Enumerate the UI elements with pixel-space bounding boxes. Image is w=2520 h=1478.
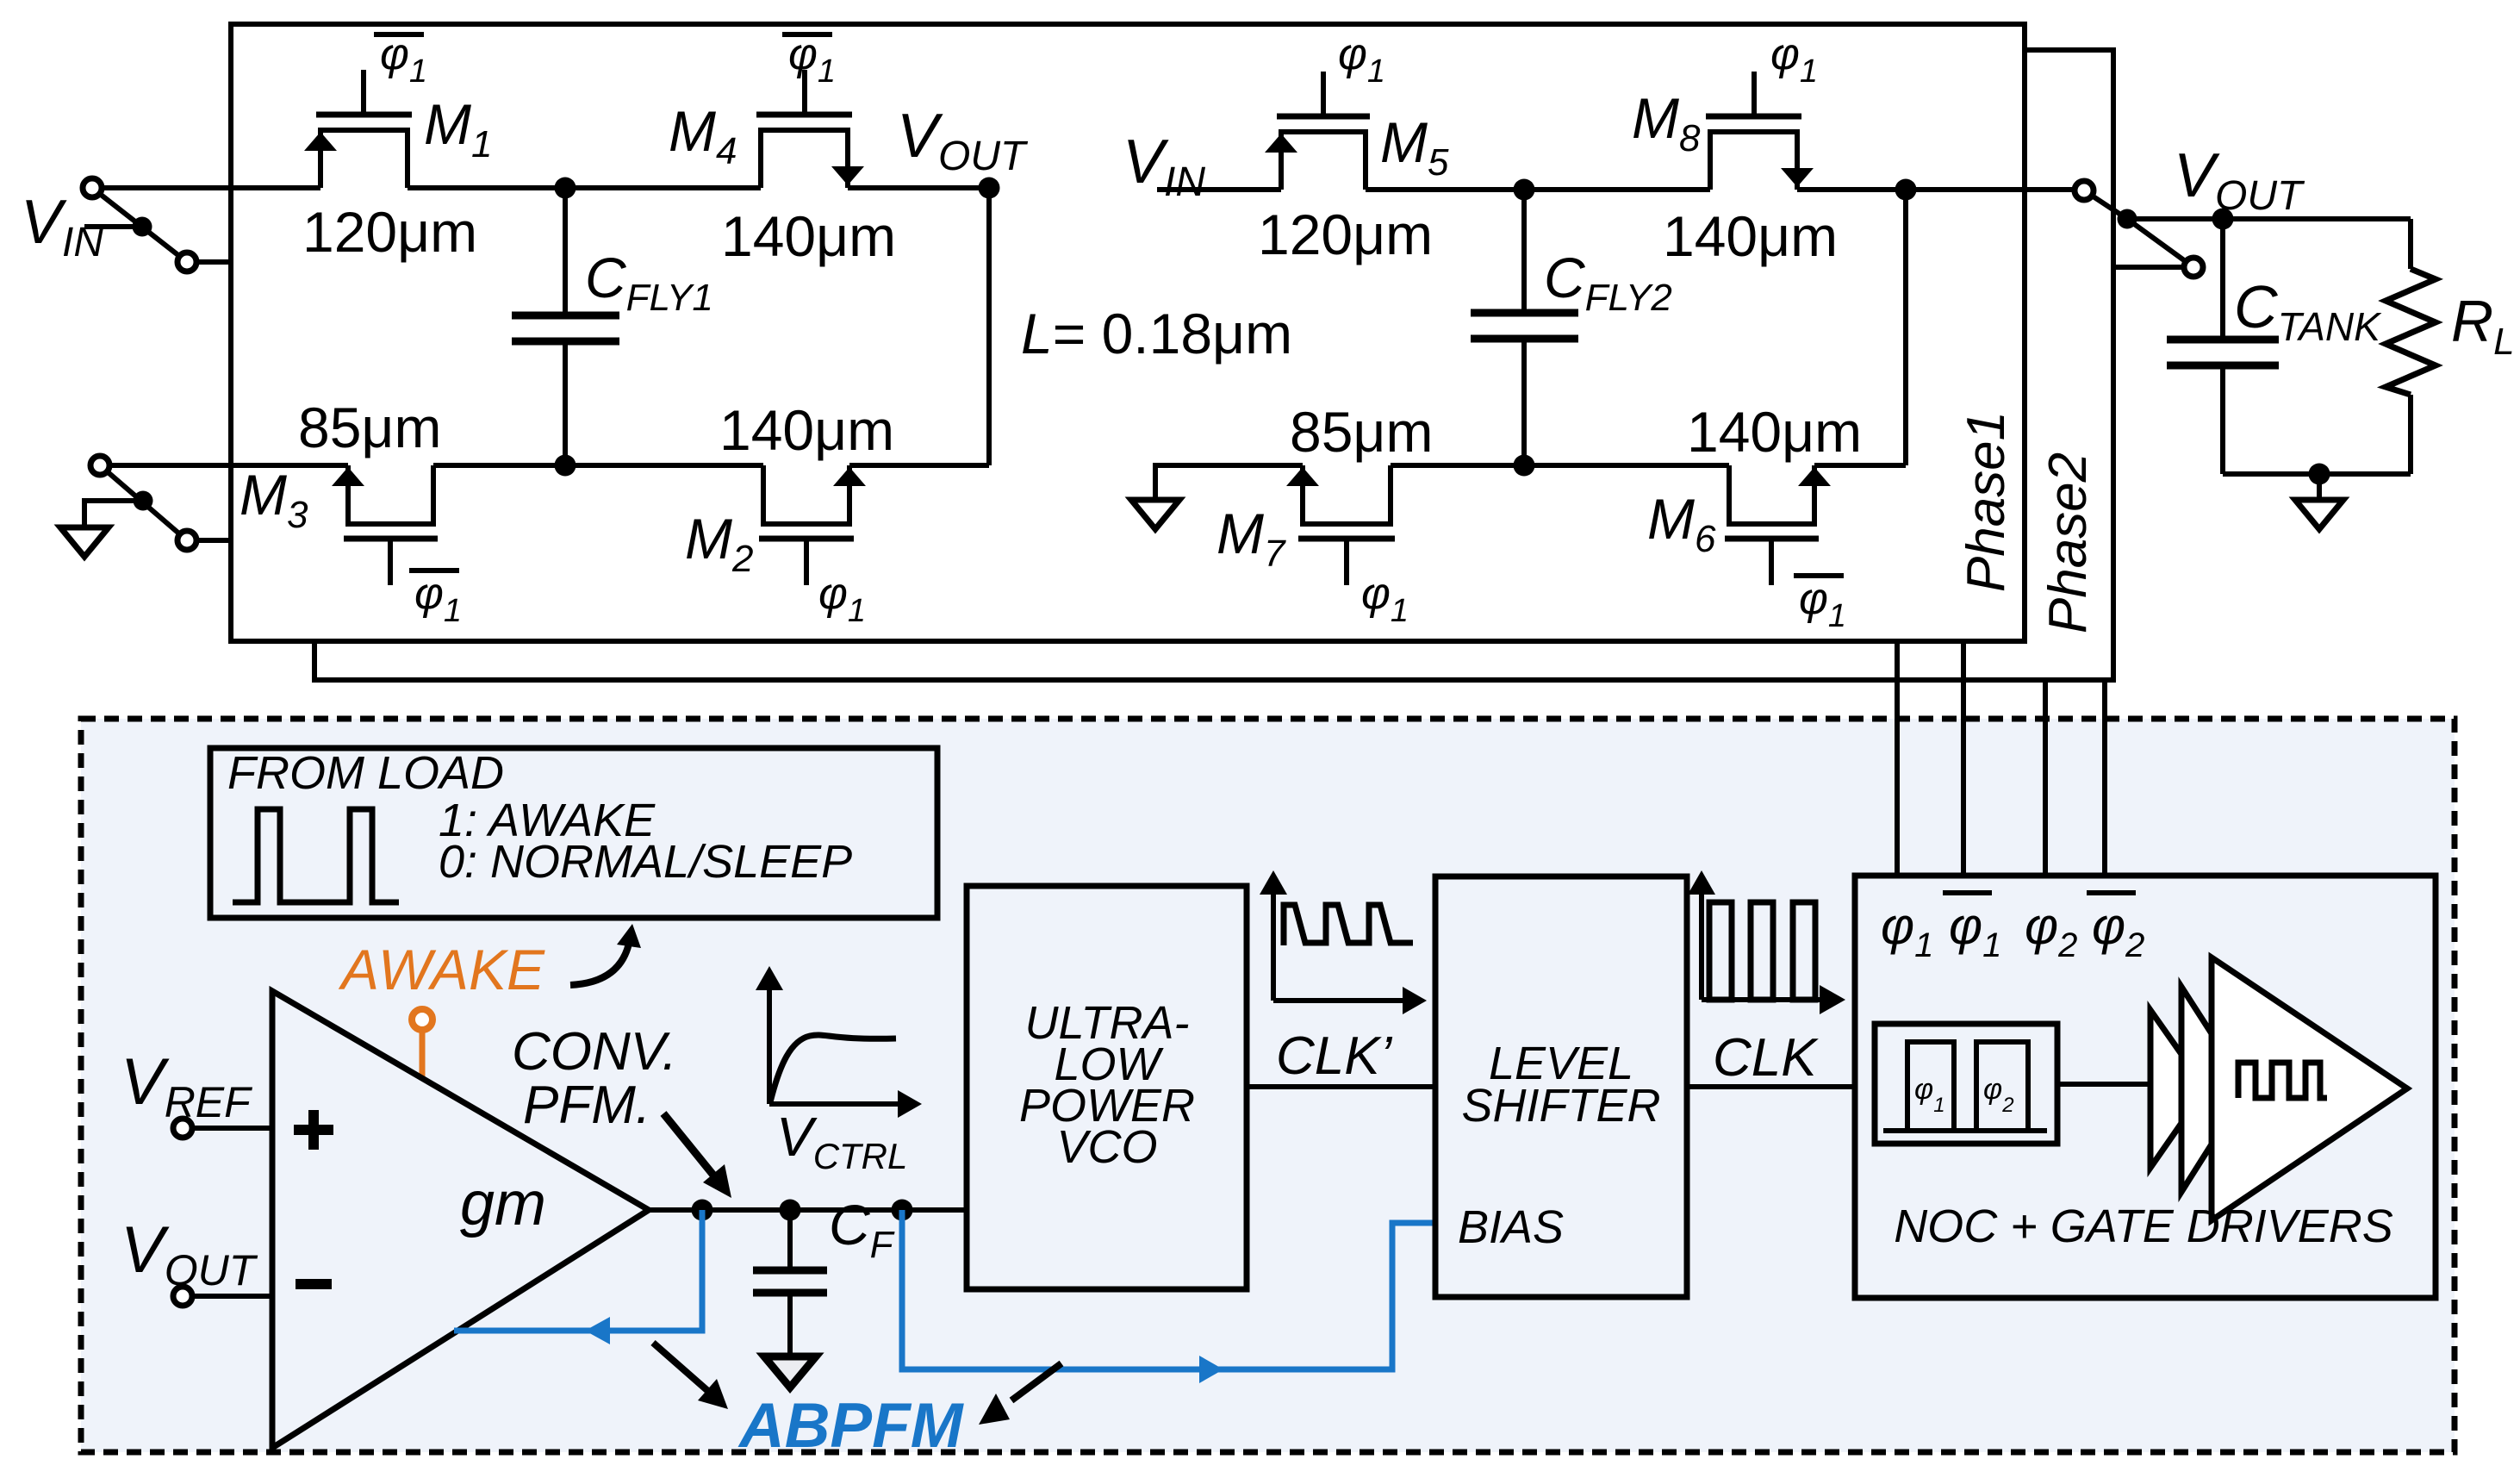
transistor M4	[761, 130, 848, 188]
svg-text:VOUT: VOUT	[2174, 141, 2305, 219]
svg-text:CFLY2: CFLY2	[1544, 246, 1672, 319]
svg-text:φ1: φ1	[1338, 29, 1385, 90]
svg-text:ABPFM: ABPFM	[737, 1391, 965, 1461]
svg-text:CONV.: CONV.	[512, 1022, 677, 1082]
blue feedback wire to gm	[454, 1210, 702, 1331]
svg-text:140μm: 140μm	[1663, 204, 1838, 268]
plus input	[294, 1125, 333, 1135]
svg-text:L= 0.18μm: L= 0.18μm	[1021, 302, 1292, 365]
svg-text:RL: RL	[2451, 289, 2515, 363]
M6 gate label phi1bar	[1794, 573, 1844, 578]
svg-text:Phase1: Phase1	[1957, 411, 2016, 592]
ground (output)	[2295, 500, 2343, 529]
bottom rail cell1	[109, 463, 989, 468]
transistor M1	[320, 130, 408, 188]
svg-text:120μm: 120μm	[1258, 203, 1433, 266]
svg-text:φ1: φ1	[1770, 29, 1818, 90]
VOUT wire right	[2127, 216, 2411, 221]
NOC + GATE DRIVERS box	[1855, 876, 2436, 1298]
svg-text:0: NORMAL/SLEEP: 0: NORMAL/SLEEP	[439, 836, 852, 888]
svg-text:M6: M6	[1647, 487, 1716, 560]
M1 gate label phi1bar	[374, 32, 424, 37]
node VOUT cell1	[979, 178, 1000, 199]
svg-text:VCO: VCO	[1056, 1121, 1157, 1173]
AWAKE pin on gm	[420, 1029, 426, 1080]
VOUT vertical cell1	[986, 188, 992, 465]
svg-text:140μm: 140μm	[1687, 400, 1862, 464]
svg-text:SHIFTER: SHIFTER	[1461, 1080, 1660, 1132]
output switch	[2084, 190, 2193, 267]
svg-text:PFM.: PFM.	[523, 1076, 650, 1135]
svg-text:CLK: CLK	[1713, 1028, 1819, 1088]
Phase2 box	[314, 50, 2113, 680]
curved arrow AWAKE to FROM LOAD	[570, 939, 630, 985]
CLKp waveform axes	[1271, 882, 1276, 1001]
transistor M3	[348, 465, 433, 524]
svg-text:M7: M7	[1216, 502, 1286, 575]
arrow to ABPFM	[653, 1343, 710, 1393]
svg-text:φ1: φ1	[788, 29, 836, 90]
svg-text:VOUT: VOUT	[897, 102, 1029, 179]
svg-text:φ1: φ1	[414, 569, 462, 629]
svg-text:CLK’: CLK’	[1276, 1026, 1393, 1086]
wire VCO to level shifter	[1247, 1084, 1435, 1089]
resistor RL	[2408, 219, 2413, 269]
capacitor CTANK	[2220, 219, 2225, 340]
wire level shifter to NOC	[1687, 1084, 1855, 1089]
wire phi1 drop	[1895, 641, 1900, 876]
FROM LOAD box	[210, 748, 937, 918]
ground (cell2 bottom rail)	[1153, 463, 1158, 498]
svg-text:M3: M3	[240, 463, 308, 536]
transistor M6	[1729, 465, 1814, 524]
VOUT terminal (amp)	[192, 1294, 272, 1299]
transistor M5	[1281, 132, 1366, 190]
svg-text:M2: M2	[685, 507, 753, 580]
svg-text:gm: gm	[460, 1169, 546, 1238]
M3 gate label phi1bar	[409, 568, 459, 573]
capacitor CF	[787, 1210, 793, 1270]
svg-text:M8: M8	[1632, 86, 1701, 159]
svg-text:AWAKE: AWAKE	[338, 938, 545, 1001]
capacitor CFLY1	[563, 188, 568, 315]
transistor M2	[763, 465, 849, 524]
svg-text:85μm: 85μm	[298, 396, 441, 459]
CLK waveform axes	[1699, 882, 1704, 1000]
svg-text:Phase2: Phase2	[2038, 452, 2098, 633]
wire NOC icon to buffers	[2057, 1082, 2150, 1087]
LEVEL SHIFTER box	[1435, 876, 1687, 1297]
load pulse waveform	[233, 809, 399, 902]
svg-text:φ1: φ1	[1361, 569, 1409, 629]
Phase1 box	[231, 24, 2025, 641]
svg-text:φ1: φ1	[818, 569, 866, 629]
M4 gate label phi1bar	[782, 32, 832, 37]
buffer waveform glyph	[2238, 1063, 2327, 1098]
svg-text:FROM LOAD: FROM LOAD	[227, 747, 504, 799]
ground (input switch)	[60, 527, 109, 557]
transistor M7	[1303, 465, 1391, 524]
wire phi2bar drop	[2102, 680, 2107, 876]
svg-text:140μm: 140μm	[719, 398, 894, 462]
svg-text:120μm: 120μm	[302, 200, 477, 264]
transistor M8	[1710, 132, 1797, 190]
capacitor CFLY2	[1521, 190, 1527, 313]
svg-text:CTANK: CTANK	[2234, 273, 2382, 349]
arrow CONV.PFM to node	[663, 1113, 715, 1177]
VREF terminal	[192, 1126, 272, 1131]
top rail cell1	[102, 185, 989, 190]
svg-text:BIAS: BIAS	[1458, 1201, 1564, 1253]
svg-text:φ1: φ1	[380, 29, 427, 90]
svg-text:VIN: VIN	[1123, 128, 1205, 205]
svg-text:NOC + GATE DRIVERS: NOC + GATE DRIVERS	[1894, 1200, 2393, 1252]
gate driver buffers	[2150, 1010, 2206, 1168]
svg-text:CFLY1: CFLY1	[585, 246, 713, 319]
CLK pulses	[1709, 902, 1732, 1000]
wire phi1bar drop	[1961, 641, 1966, 876]
svg-text:85μm: 85μm	[1290, 400, 1433, 464]
arrow from BIAS side to ABPFM	[1011, 1363, 1061, 1400]
input switch GND	[100, 465, 187, 540]
output ground wire	[2223, 471, 2411, 477]
VCTRL graph	[767, 978, 772, 1104]
right-end vertical cell2	[1903, 190, 1908, 465]
minus input	[296, 1279, 332, 1289]
wire phi2 drop	[2043, 680, 2048, 876]
CLKp waveform	[1284, 905, 1413, 945]
gm output wire	[649, 1207, 967, 1213]
bottom rail cell2	[1155, 463, 1906, 468]
svg-text:M5: M5	[1380, 110, 1449, 184]
ULTRA-LOW POWER VCO box	[967, 886, 1247, 1289]
top rail cell2	[1157, 187, 2074, 192]
control loop dashed box	[81, 719, 2455, 1452]
NOC icon box	[1875, 1024, 2057, 1144]
ground (CF)	[764, 1356, 816, 1388]
blue wire to BIAS	[902, 1210, 1435, 1369]
svg-text:M1: M1	[424, 92, 492, 165]
svg-text:M4: M4	[669, 99, 737, 172]
input switch VIN	[92, 188, 187, 262]
svg-text:140μm: 140μm	[721, 204, 896, 268]
svg-text:φ1: φ1	[1799, 574, 1846, 634]
op-amp gm triangle	[272, 991, 649, 1448]
